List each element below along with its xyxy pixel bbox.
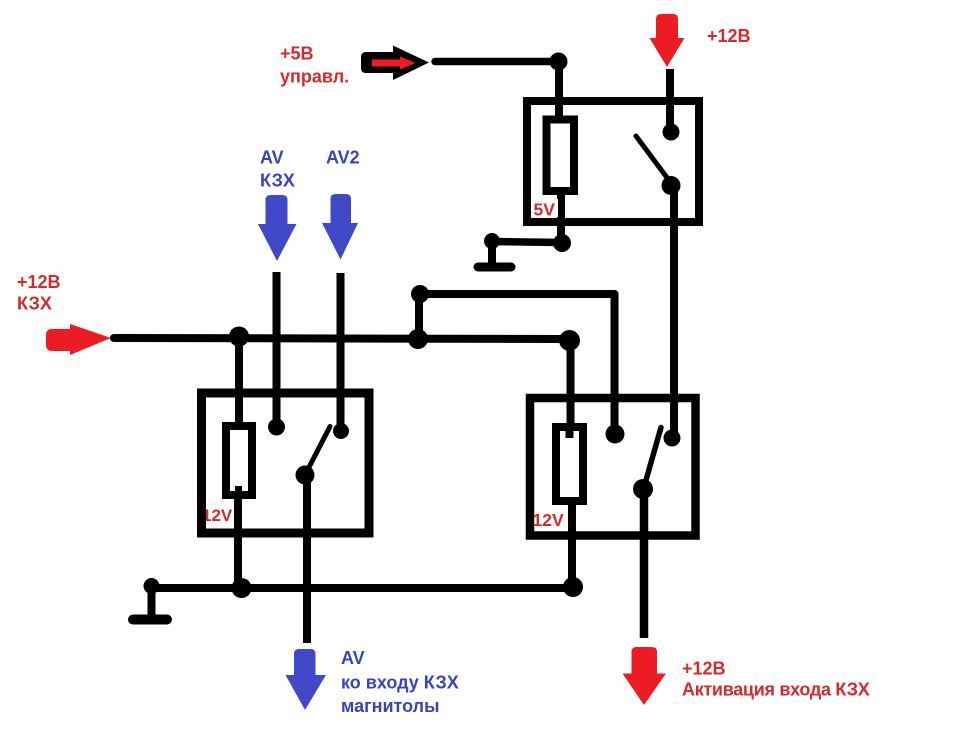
relay 1 lever: [306, 427, 330, 474]
arrow AV input (blue): [258, 195, 297, 261]
svg-text:Активация входа КЗХ: Активация входа КЗХ: [682, 680, 870, 700]
svg-text:магнитолы: магнитолы: [341, 696, 439, 716]
arrow AV2 input (blue): [322, 194, 358, 260]
node upper branch: [411, 285, 429, 303]
svg-text:КЗХ: КЗХ: [260, 171, 295, 191]
node: coil-ground junction: [553, 234, 571, 252]
wire AV arrow down to relay 1: [273, 272, 281, 421]
relay 1 contact dot AV: [268, 419, 285, 436]
svg-text:5V: 5V: [534, 200, 556, 220]
wire upper branch to relay 2 contact: [420, 294, 615, 430]
relay 1 box: [202, 393, 370, 533]
coil 12V (relay 2): [556, 427, 583, 501]
wire junction to ground stub: [493, 242, 562, 243]
coil 12V (relay 1): [226, 426, 252, 495]
svg-text:+5В: +5В: [280, 44, 314, 64]
wire AV2 arrow down to relay 1: [337, 273, 345, 425]
relay 2 pivot dot: [633, 479, 653, 499]
svg-text:КЗХ: КЗХ: [17, 294, 52, 314]
wire rail end down to right coil: [567, 344, 575, 426]
wire +5V horizontal: [435, 58, 558, 66]
svg-text:управл.: управл.: [280, 67, 349, 87]
wire +12V arrow to switch contact: [666, 69, 674, 128]
svg-text:12V: 12V: [202, 506, 233, 525]
relay 2 contact dot 2: [664, 430, 681, 447]
relay 2 lever: [644, 428, 661, 488]
wire relay 2 pivot to +12V output arrow: [640, 492, 649, 638]
node: +5V junction: [550, 53, 568, 71]
ground (bottom left): [144, 578, 160, 594]
wire right coil bottom to ground rail: [568, 500, 576, 586]
wire left coil bottom to ground rail: [234, 496, 242, 588]
label 5V: [532, 199, 558, 217]
arrow +12V supply (top): [650, 14, 685, 67]
svg-text:+12В: +12В: [682, 659, 726, 679]
node on rail (left coil tap): [229, 327, 249, 347]
wire main +12V rail: [114, 338, 568, 339]
coil 5V (relay 3): [547, 120, 575, 192]
node rail end (right coil tap): [559, 330, 580, 351]
input arrow +5V control: [361, 46, 429, 81]
relay 3 contact dot: [663, 124, 680, 141]
wire relay 1 pivot to AV output arrow: [303, 477, 311, 643]
wire 5V coil bottom to junction: [557, 190, 565, 242]
wire down to 5V coil: [555, 62, 563, 121]
relay 3 box (5V): [527, 101, 699, 222]
wire switch pivot down to relay 2: [670, 189, 678, 433]
wire ground rail (bottom): [151, 584, 573, 592]
node on rail: [408, 329, 428, 349]
svg-text:+12В: +12В: [17, 272, 61, 292]
arrow +12V КЗХ input (left, red): [46, 324, 111, 355]
coil stub (relay 2): [566, 429, 574, 438]
svg-text:+12В: +12В: [707, 26, 751, 46]
node right coil on ground rail: [563, 577, 583, 597]
relay 2 box: [530, 398, 696, 536]
relay 2 contact dot 1: [606, 425, 625, 444]
svg-text:AV2: AV2: [326, 148, 360, 168]
relay 1 contact dot AV2: [333, 423, 349, 439]
arrow AV output (bottom, blue): [286, 649, 327, 710]
relay 3 lever: [636, 136, 671, 183]
wire left coil tap down: [235, 336, 243, 424]
relay 3 pivot dot: [662, 176, 681, 195]
ground (top): [484, 233, 500, 249]
coil stub (relay 1): [235, 486, 242, 496]
arrow +12V activation output (bottom, red): [623, 647, 667, 705]
svg-text:AV: AV: [341, 648, 365, 668]
svg-text:AV: AV: [260, 148, 284, 168]
node left coil on ground rail: [232, 578, 252, 598]
svg-text:ко входу КЗХ: ко входу КЗХ: [341, 673, 459, 693]
wire rail to upper branch link: [415, 294, 423, 339]
svg-text:12V: 12V: [533, 510, 564, 530]
relay 1 pivot dot: [296, 466, 315, 485]
